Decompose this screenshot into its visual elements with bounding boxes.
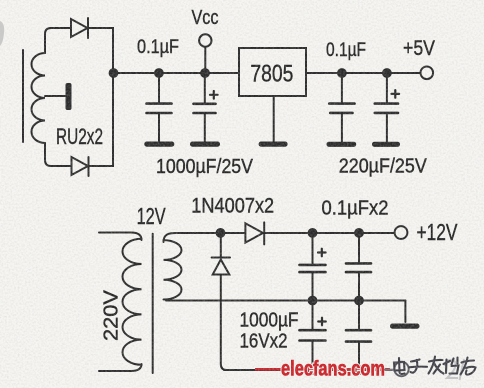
node B (+12V rail, C5 tap) [308,228,318,238]
capacitor C7 0.1uF: top stem [358,233,360,263]
transformer T1 secondary winding (12V) [164,240,182,299]
node at C3 [337,68,347,78]
value label 1000uF [240,310,299,332]
capacitor C5 bottom stem [312,272,314,300]
wire: W1 bottom to diode D2 [45,143,71,166]
value label 16Vx2 [240,331,288,353]
wire: +5V output rail [306,72,421,74]
capacitor C5 plates [300,265,326,272]
watermark ghost numeral 2 (scan bleed) [445,359,464,380]
terminal Vcc (open circle) [199,34,211,46]
wire: 7805 ground pin [273,96,275,142]
capacitor C7 bottom stem [358,272,360,300]
capacitor C8 0.1uF: top stem [358,301,360,331]
capacitor C8 bottom stem [358,342,360,370]
label 0.1uFx2 [322,197,389,220]
polarity + (C4) [392,90,400,98]
ground (7805) [259,142,288,147]
diode D4 (1N4007, shunt) [212,258,230,275]
ground (C3) [327,142,357,147]
node F (negative rail / C6) [308,365,318,375]
core (top pickup winding) [22,50,24,142]
capacitor C1 0.1uF: top stem [158,73,160,103]
watermark logo circle [394,362,408,376]
wire: mid rail to ground [404,301,406,323]
label 7805 [250,61,293,88]
wire: center tap of W1 [45,95,65,97]
ground (bottom section) [390,324,420,329]
node at C2 / Vcc tap [200,68,210,78]
wire: secondary top to node A [164,233,221,242]
wire: D1 cathode to right vertical [88,28,113,72]
capacitor C3 bottom stem [341,113,343,142]
label +5V [403,37,435,60]
wire: W1 top to diode D1 [45,28,70,53]
dian [394,358,405,374]
capacitor C6 bottom stem [312,341,314,371]
center-tap terminal bar [66,83,72,110]
fa [429,357,444,374]
capacitor C4 plates [375,104,398,113]
wire: main +V rail to 7805 input [114,72,240,74]
label 12V [137,203,166,229]
capacitor C2 plates [194,104,216,113]
label +12V [417,219,458,245]
wire: D4 anode down to negative rail [221,275,227,371]
wire: node A to diode D3 [221,232,246,234]
transformer T1 primary stub (top) [99,233,142,241]
capacitor C6 1000uF/16V: top stem [312,301,314,331]
wire: mid (ground) rail [166,300,405,302]
label Vcc [192,7,219,29]
transformer T1 core [152,234,154,373]
terminal +12V (open circle) [395,226,408,239]
wire: Vcc stub [204,47,206,73]
watermark elecfans.com (red) [281,357,385,381]
shao [444,358,459,374]
polarity + (C2) [210,91,218,99]
winding W1 (RU2 rectifier coil) [31,53,45,143]
you [461,358,476,375]
label RU2x2 [56,124,103,149]
watermark strike line (red) [255,368,390,371]
value label 0.1uF (C3) [326,40,366,61]
wire: +12V rail [264,232,395,234]
capacitor C3 plates [329,104,354,113]
wire: node A down to diode D4 [220,233,222,257]
wire: right vertical down to bottom loop [89,74,113,166]
ground (C2) [190,142,220,147]
capacitor C6 plates [300,330,326,340]
scan smudge top-left corner [0,21,4,46]
node at C1 [154,68,164,78]
zi [409,360,427,373]
capacitor C4 220uF/25V: top stem [386,73,388,104]
transformer T1 primary winding (220V) [122,239,141,365]
diode D3 (1N4007, series) [245,222,264,244]
transformer T1 primary stub (bottom) [99,364,142,371]
node E (mid rail / C7-C8) [354,296,364,306]
node C (+12V rail, C7 tap) [354,228,364,238]
capacitor C1 bottom stem [158,113,160,142]
label 1N4007x2 [191,195,274,218]
capacitor C4 bottom stem [386,113,388,142]
diode D2 (RU2, bottom) [72,157,89,176]
capacitor C2 bottom stem [204,113,206,142]
polarity + (C6) [318,318,326,326]
polarity + (C5) [318,249,326,257]
node at C4 [382,68,392,78]
capacitor C8 plates [346,330,371,341]
watermark gray lead line [384,369,395,371]
label 220V [101,289,123,341]
ground (C1) [144,142,174,147]
capacitor C7 plates [346,263,371,272]
node VIN (rectifier output junction) [109,68,119,78]
capacitor C1 plates [147,104,172,113]
terminal +5V (open circle) [421,67,434,80]
node G (negative rail / C8) [354,365,364,375]
wire: negative rail (bottom) [224,369,392,371]
capacitor C2 1000uF/25V: top stem [204,73,206,104]
watermark Chinese characters (drawn strokes) [394,357,476,375]
diode D1 (RU2, top) [71,18,88,38]
node A [216,228,226,238]
capacitor C5 1000uF/16V: top stem [312,233,314,265]
value label 1000uF/25V [156,156,254,178]
value label 220uF/25V [339,156,428,178]
capacitor C3 0.1uF: top stem [341,73,343,104]
regulator U1 7805 box [239,48,306,96]
node D (mid rail / C5-C6) [308,296,318,306]
ground (C4) [372,142,400,147]
value label 0.1uF (C1) [137,37,179,58]
